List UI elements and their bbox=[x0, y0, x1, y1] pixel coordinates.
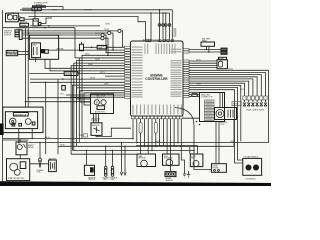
svg-text:18 LG: 18 LG bbox=[85, 54, 90, 56]
svg-text:DISTRIBUTOR: DISTRIBUTOR bbox=[14, 114, 27, 116]
svg-text:C/S SENSOR: C/S SENSOR bbox=[245, 179, 256, 181]
svg-text:SENSOR: SENSOR bbox=[92, 125, 100, 127]
svg-text:C101: C101 bbox=[79, 135, 83, 137]
svg-text:SWITCH: SWITCH bbox=[89, 179, 96, 181]
svg-text:18 OR: 18 OR bbox=[90, 77, 96, 79]
svg-text:FUEL INJECTORS: FUEL INJECTORS bbox=[247, 109, 265, 111]
svg-text:18 DG/BK: 18 DG/BK bbox=[56, 49, 64, 51]
svg-text:NOISE: NOISE bbox=[21, 25, 27, 27]
svg-text:BODY: BODY bbox=[97, 98, 103, 100]
svg-text:SENSOR: SENSOR bbox=[65, 74, 73, 76]
svg-text:18 DG: 18 DG bbox=[52, 10, 58, 12]
svg-text:STARTER MOTOR: STARTER MOTOR bbox=[8, 177, 25, 180]
svg-text:POSITION: POSITION bbox=[91, 120, 100, 122]
svg-text:16 RD: 16 RD bbox=[60, 145, 66, 147]
svg-text:ASD: ASD bbox=[33, 44, 38, 47]
svg-text:AIS MOTOR: AIS MOTOR bbox=[95, 110, 105, 113]
svg-text:18 YL: 18 YL bbox=[60, 93, 64, 95]
svg-text:SENSOR: SENSOR bbox=[166, 180, 174, 182]
svg-text:OUTPUT: OUTPUT bbox=[4, 35, 12, 37]
svg-text:M: M bbox=[96, 101, 98, 104]
svg-text:18 TN: 18 TN bbox=[100, 72, 105, 74]
svg-text:CONNECTOR: CONNECTOR bbox=[201, 96, 213, 98]
svg-text:COIL: COIL bbox=[221, 124, 225, 126]
svg-text:16 BK/WT: 16 BK/WT bbox=[84, 10, 92, 12]
svg-text:INJ 1: INJ 1 bbox=[240, 89, 244, 91]
svg-text:AUTO SHUT: AUTO SHUT bbox=[7, 51, 18, 54]
svg-text:18 BR: 18 BR bbox=[196, 84, 201, 86]
svg-text:CONTROLLER: CONTROLLER bbox=[145, 77, 168, 81]
svg-text:PUMP: PUMP bbox=[98, 48, 104, 50]
svg-text:RELAY: RELAY bbox=[28, 146, 35, 149]
svg-text:18 WT: 18 WT bbox=[95, 59, 100, 61]
svg-text:INJ FD: INJ FD bbox=[233, 104, 239, 106]
svg-text:FILTER: FILTER bbox=[212, 167, 218, 169]
svg-text:SENSOR: SENSOR bbox=[139, 158, 147, 160]
